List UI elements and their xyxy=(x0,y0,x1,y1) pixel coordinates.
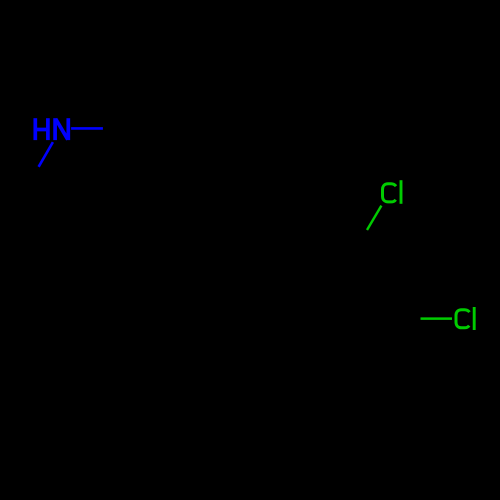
atom label HN: letter N xyxy=(55,118,68,140)
bond C-Cl (green half, lower chlorine) xyxy=(421,317,453,320)
atom label Cl (upper): letter C xyxy=(383,184,397,202)
atom label Cl (lower): letter l xyxy=(473,307,476,330)
bond N-CH3 (blue half, methyl on amine) xyxy=(39,142,53,167)
atom label Cl (lower): letter C xyxy=(456,310,470,328)
atom label HN: letter H xyxy=(35,118,48,140)
bond C-Cl (green half, upper chlorine) xyxy=(367,206,381,230)
atom label Cl (upper): letter l xyxy=(400,180,403,204)
wire: carbon skeleton bonds (black, invisible on black background) xyxy=(16,128,420,382)
bond N-C (blue half, from amine N to carbon) xyxy=(71,127,103,130)
